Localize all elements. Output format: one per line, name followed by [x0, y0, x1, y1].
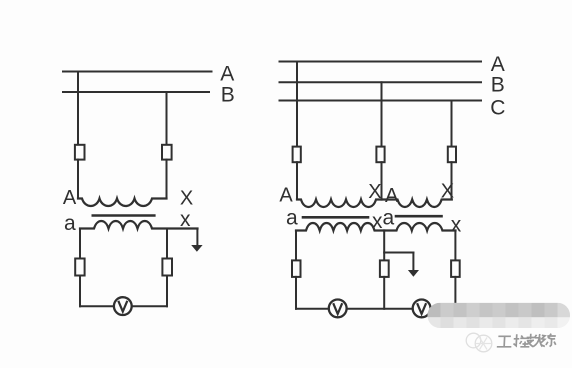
primary winding TV2 (A-X) [297, 200, 382, 208]
svg-text:a: a [64, 212, 76, 235]
bus C (right circuit) [280, 100, 482, 102]
core TV1 [93, 214, 155, 217]
ground (left circuit) [196, 229, 198, 246]
char 工 [497, 336, 512, 347]
ground branch (right circuit) [384, 252, 413, 254]
secondary winding TV1 (left, a-x) [80, 221, 198, 229]
svg-text:x: x [451, 214, 462, 237]
wire phase A drop right [296, 62, 298, 148]
char 练 [541, 334, 556, 347]
wire phase B drop left [166, 92, 168, 145]
voltmeter letter V PV2 [333, 303, 342, 314]
svg-text:A: A [220, 63, 234, 86]
wire secondary right drop [166, 229, 168, 260]
fuse fu5 [451, 260, 460, 277]
svg-text:B: B [491, 73, 505, 96]
svg-text:X: X [180, 188, 193, 210]
wire [454, 277, 456, 309]
wire secondary right drop [454, 231, 456, 262]
fuse fu2 left secondary [162, 259, 172, 276]
secondary winding TV3 (a-x) [384, 223, 455, 231]
svg-text:a: a [286, 207, 298, 230]
wire [79, 276, 81, 307]
wire bottom right circuit [296, 308, 328, 310]
secondary winding TV2 (a-x) [296, 223, 384, 231]
bus A (right circuit) [280, 61, 482, 63]
wire [166, 276, 168, 307]
voltmeter PV1 [114, 297, 132, 315]
bus A (left circuit) [63, 71, 212, 73]
voltmeter PV3 [413, 300, 431, 318]
primary winding TV1 (left, A-X) [78, 199, 167, 207]
bus B (right circuit) [280, 81, 482, 83]
wire [295, 277, 297, 309]
wire [77, 160, 79, 199]
fuse fu4 [380, 260, 389, 277]
fuse FU1 left [75, 145, 85, 160]
core TV3 [396, 215, 442, 218]
wire phase A drop left [77, 72, 79, 146]
svg-text:C: C [490, 97, 505, 120]
voltmeter letter V PV3 [417, 303, 426, 314]
mosaic blur patch (erased watermark) [428, 303, 571, 328]
svg-text:x: x [372, 210, 383, 233]
wire [381, 162, 383, 199]
svg-text:x: x [180, 208, 191, 231]
svg-text:X: X [368, 181, 381, 203]
wire [451, 162, 453, 199]
primary winding TV3 (A-X) [382, 200, 452, 208]
voltmeter letter V PV1 [118, 301, 127, 312]
bus B (left circuit) [63, 91, 209, 93]
svg-text:B: B [221, 83, 235, 106]
wire phase B drop right [381, 82, 383, 147]
svg-text:A: A [279, 185, 293, 207]
svg-text:A: A [385, 185, 399, 207]
wire [296, 162, 298, 199]
fuse FU5 [448, 147, 456, 163]
char 教 [526, 334, 543, 347]
wire bottom left circuit [80, 305, 113, 307]
svg-text:A: A [63, 187, 77, 209]
core TV2 [303, 216, 368, 219]
fuse FU2 left [162, 145, 172, 160]
fuse FU3 [293, 147, 301, 163]
char 控 [513, 334, 530, 347]
wire secondary left drop right circuit [295, 231, 297, 262]
wire [166, 160, 168, 199]
watermark logo circles [466, 333, 492, 352]
fuse fu3 [292, 260, 301, 277]
svg-text:a: a [383, 207, 395, 230]
voltmeter PV2 [329, 300, 347, 318]
wire [383, 277, 385, 309]
svg-text:X: X [441, 181, 454, 203]
watermark text 工控教练 (hand drawn strokes) [497, 334, 556, 347]
wire phase C drop right [451, 101, 453, 148]
wire secondary middle drop [383, 231, 385, 262]
wire secondary left drop [79, 229, 81, 260]
fuse FU4 [376, 147, 384, 163]
fuse fu1 left secondary [75, 259, 84, 276]
